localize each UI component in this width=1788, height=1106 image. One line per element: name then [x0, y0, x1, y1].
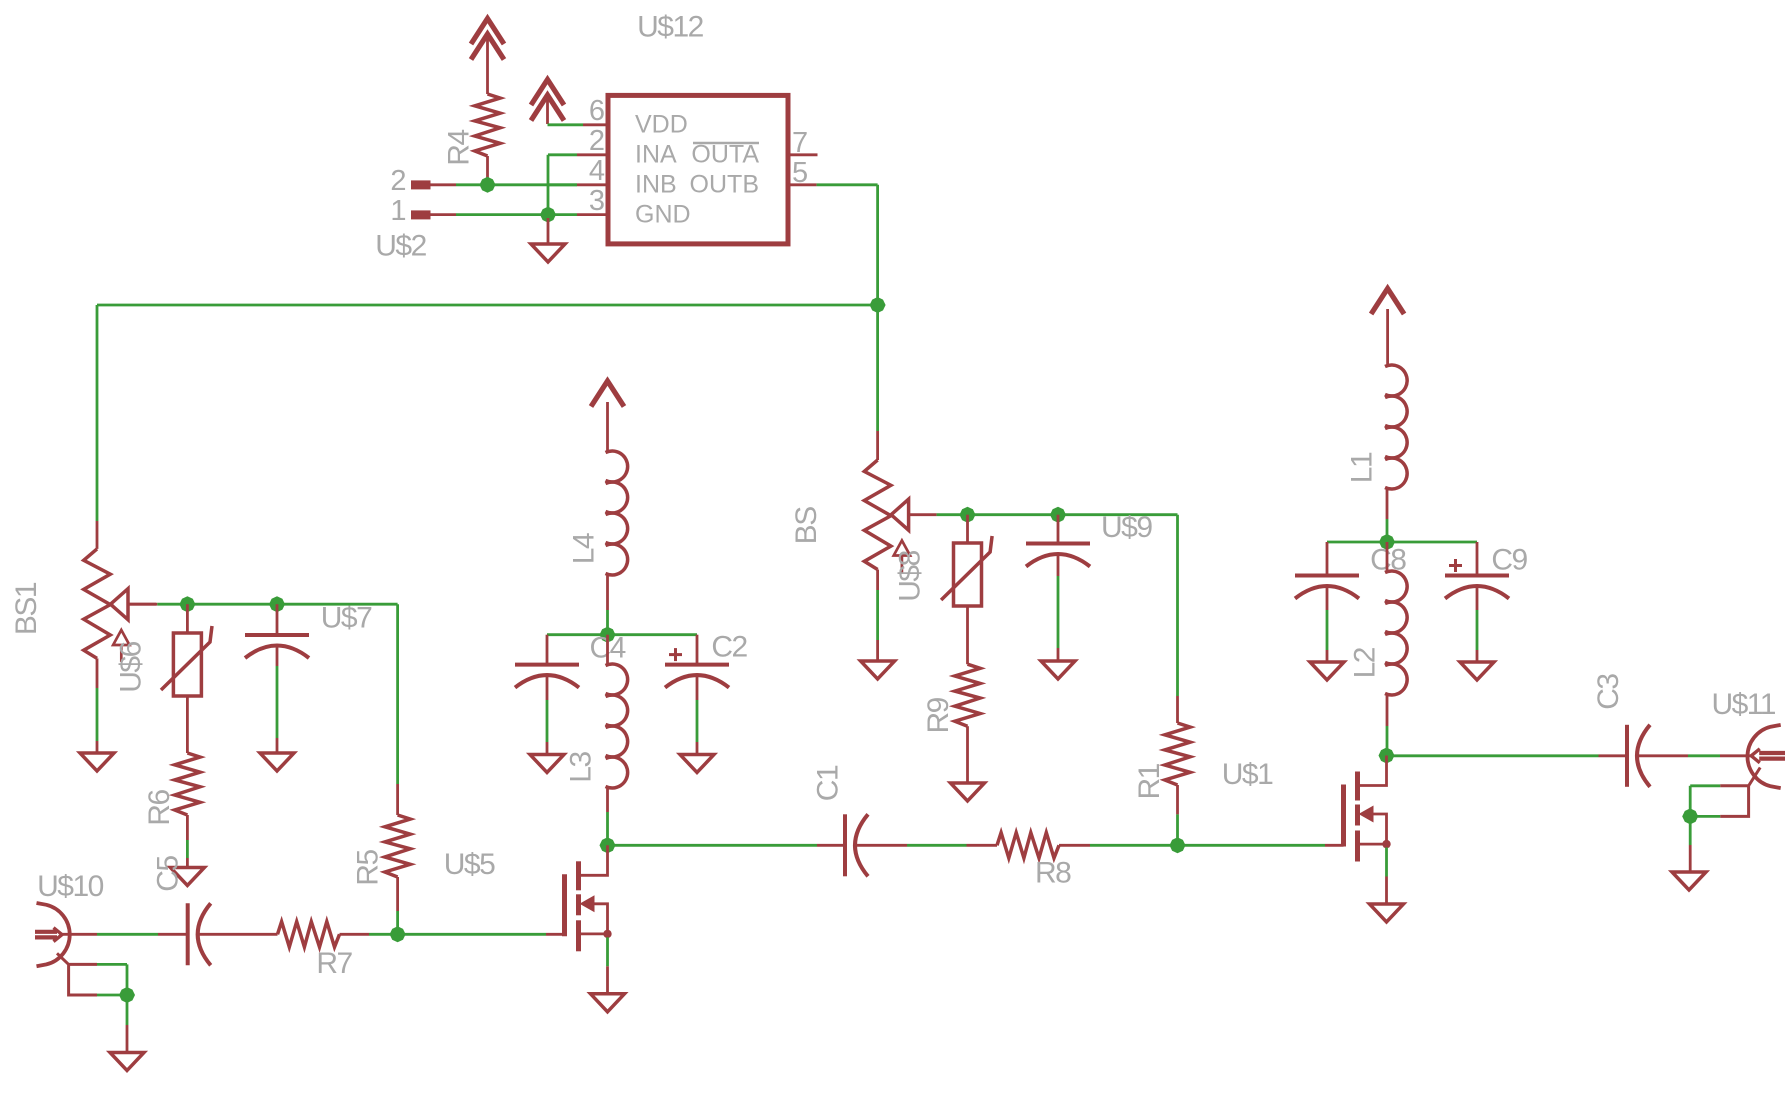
svg-text:BS: BS: [790, 507, 823, 545]
inductor L2: [1385, 571, 1407, 695]
pin 7 OUTA stub: [788, 127, 818, 159]
connector U$2 pin 2 pad: [390, 165, 456, 197]
ground (C2): [680, 755, 714, 773]
wire U$7 top stub: [276, 604, 279, 635]
wire U$7 bottom: [276, 646, 279, 753]
wire BS1 bottom: [96, 658, 99, 753]
wire rail corner down to R1: [1176, 515, 1179, 723]
ground (U$7): [260, 753, 294, 771]
ground (R9): [951, 783, 985, 801]
svg-text:C5: C5: [152, 856, 185, 892]
wire L2 top: [1386, 542, 1389, 571]
svg-text:R6: R6: [143, 790, 176, 826]
capacitor C2 polarized: [665, 648, 729, 688]
inductor L3: [606, 664, 628, 788]
svg-text:U$12: U$12: [637, 11, 704, 44]
svg-text:7: 7: [792, 127, 807, 159]
wire C8 bottom: [1326, 586, 1329, 662]
wire long horizontal rail: [97, 304, 878, 307]
label U$9: [1101, 511, 1152, 544]
ground (U$1): [1370, 904, 1404, 922]
trimmer arrow BS1: [113, 630, 129, 662]
wire C9 bottom: [1476, 586, 1479, 662]
label BS1: [10, 582, 43, 635]
wire L4 bottom: [606, 575, 609, 635]
jack connector U$11: [1747, 725, 1785, 788]
wire L2 bottom: [1386, 695, 1389, 756]
wire R8 to U$1 gate: [1178, 844, 1344, 847]
resistor R7: [278, 922, 398, 947]
svg-text:INA: INA: [635, 140, 677, 168]
junction C8/C9 rail: [1379, 534, 1395, 550]
wire rail corner down to R5: [396, 604, 399, 815]
label U$10: [37, 870, 104, 903]
svg-text:R5: R5: [352, 850, 385, 886]
wire U$11 sleeve to ground: [1689, 819, 1692, 872]
label C8: [1370, 544, 1406, 577]
svg-text:C2: C2: [711, 631, 747, 664]
wire U$6 to R6: [186, 696, 189, 753]
svg-text:R7: R7: [316, 947, 352, 980]
svg-text:R4: R4: [443, 130, 476, 166]
label R4: [443, 130, 476, 166]
svg-text:L4: L4: [568, 533, 601, 564]
wire U$9 top stub: [1057, 515, 1060, 544]
label U$2: [375, 230, 426, 263]
label U$5: [444, 848, 495, 881]
svg-text:6: 6: [589, 95, 604, 127]
trimmer arrow BS: [894, 541, 910, 573]
svg-text:BS1: BS1: [10, 582, 43, 635]
wire C8 top stub: [1326, 542, 1329, 576]
wire L3 top: [606, 635, 609, 664]
wire L1 bottom: [1386, 489, 1389, 542]
capacitor U$9: [1026, 544, 1090, 567]
wire varistor top stub: [966, 515, 969, 543]
wiper of BS1: [111, 589, 157, 620]
wire C4 top stub: [546, 635, 549, 665]
IC U$12 box: [608, 95, 788, 244]
ground (BS): [861, 661, 895, 679]
svg-text:L1: L1: [1346, 452, 1379, 483]
wire rail down to BS1: [96, 305, 99, 549]
wire C9 top stub: [1476, 542, 1479, 576]
capacitor C8: [1295, 576, 1359, 599]
wire C3 to U$11: [1638, 754, 1752, 757]
resistor R1: [1165, 723, 1190, 845]
junction R4/INB: [480, 177, 496, 193]
svg-text:U$1: U$1: [1222, 758, 1273, 791]
label U$6: [115, 641, 148, 692]
ground (R6): [170, 868, 204, 886]
supply arrow VCC (above R4): [471, 19, 504, 95]
junction U$6 tap: [179, 596, 195, 612]
svg-text:OUTA: OUTA: [691, 140, 759, 168]
svg-text:U$8: U$8: [894, 550, 927, 601]
label BS: [790, 507, 823, 545]
svg-text:GND: GND: [635, 200, 691, 228]
label U$12: [637, 11, 704, 44]
wire C2 top stub: [696, 635, 699, 665]
pin name OUTB: [690, 170, 759, 198]
capacitor C1: [845, 814, 868, 876]
svg-text:OUTB: OUTB: [690, 170, 759, 198]
svg-text:R9: R9: [922, 697, 955, 733]
wire BS bottom: [876, 570, 879, 662]
wire varistor to R9: [966, 606, 969, 665]
ground (C4): [530, 755, 564, 773]
junction R5/R7/gate: [390, 926, 406, 942]
resistor R8: [997, 833, 1178, 858]
capacitor U$7: [245, 635, 309, 658]
junction U$11 sleeve: [1682, 808, 1698, 824]
supply arrow VCC (pin 6 VDD): [531, 80, 564, 125]
label R6: [143, 790, 176, 826]
svg-text:U$5: U$5: [444, 848, 495, 881]
label L4: [568, 533, 601, 564]
svg-text:3: 3: [589, 185, 604, 217]
svg-text:C3: C3: [1592, 674, 1625, 710]
svg-text:U$2: U$2: [375, 230, 426, 263]
svg-text:U$6: U$6: [115, 641, 148, 692]
label L2: [1349, 647, 1382, 678]
inductor L4: [606, 451, 628, 575]
capacitor C5: [188, 903, 211, 965]
wire L3 bottom: [606, 788, 609, 845]
varistor U$8b: [941, 536, 992, 606]
ground (U$5): [591, 994, 625, 1012]
ground (U$9): [1041, 661, 1075, 679]
resistor R5: [385, 815, 410, 934]
junction OUTB rail: [870, 297, 886, 313]
pin name OUTA with overline: [691, 140, 759, 168]
pin name GND: [635, 200, 691, 228]
pin 4 INB stub: [548, 155, 608, 187]
wire drain to C3: [1392, 754, 1627, 757]
ground (C9): [1460, 662, 1494, 680]
label R9: [922, 697, 955, 733]
wire net INB row: [456, 183, 577, 186]
junction U$5 drain: [600, 837, 616, 853]
svg-text:VDD: VDD: [635, 110, 688, 138]
supply arrow (L4): [591, 381, 624, 451]
ground (U$10): [110, 1053, 144, 1071]
capacitor C3: [1627, 725, 1650, 787]
svg-text:4: 4: [589, 155, 605, 187]
U$11 sleeve bracket: [1690, 768, 1760, 817]
junction U$9 tap: [1050, 507, 1066, 523]
wire to ground pin3: [547, 218, 550, 244]
capacitor C9 polarized: [1445, 559, 1509, 599]
label C9: [1491, 544, 1527, 577]
label L3: [565, 752, 598, 783]
junction INA/GND: [540, 207, 556, 223]
wire C1 to R8: [856, 844, 998, 847]
wire C2 bottom: [696, 675, 699, 755]
potentiometer BS1: [84, 549, 111, 659]
wire C4 bottom: [546, 675, 549, 755]
svg-text:R8: R8: [1035, 857, 1071, 890]
supply arrow (L1): [1371, 289, 1404, 366]
pin 5 OUTB stub: [788, 157, 817, 189]
junction C4/C2 rail: [600, 627, 616, 643]
potentiometer BS: [864, 460, 891, 570]
label R8: [1035, 857, 1071, 890]
svg-text:U$11: U$11: [1711, 688, 1775, 721]
label L1: [1346, 452, 1379, 483]
junction varistor tap: [960, 507, 976, 523]
svg-text:5: 5: [792, 157, 807, 189]
junction U$10 sleeve: [119, 987, 135, 1003]
wire to U$5 gate: [398, 933, 565, 936]
inductor L1: [1385, 365, 1407, 489]
resistor R9: [955, 664, 980, 783]
label R7: [316, 947, 352, 980]
wire net GND row: [456, 213, 548, 216]
pin 6 VDD stub: [548, 95, 609, 127]
svg-text:L2: L2: [1349, 647, 1382, 678]
label C1: [812, 765, 845, 801]
label R5: [352, 850, 385, 886]
label U$7: [321, 602, 372, 635]
U$10 sleeve bracket: [57, 953, 127, 995]
label R1: [1133, 763, 1166, 799]
transistor U$1: [1344, 756, 1391, 905]
junction U$1 drain: [1379, 748, 1395, 764]
svg-text:C9: C9: [1491, 544, 1527, 577]
wire INA vertical: [547, 155, 550, 215]
pin 2 INA stub: [548, 125, 608, 157]
svg-text:C1: C1: [812, 765, 845, 801]
wire U$10 tip pin: [63, 933, 188, 936]
wire C5 to R7: [198, 933, 278, 936]
wire rail down to BS pot: [876, 305, 879, 460]
svg-text:2: 2: [390, 165, 405, 197]
wire drain to C1: [613, 844, 845, 847]
pin 3 GND stub: [548, 185, 608, 217]
wire BS wiper rail: [937, 513, 1178, 516]
varistor U$6: [161, 626, 212, 696]
svg-text:L3: L3: [565, 752, 598, 783]
svg-text:R1: R1: [1133, 763, 1166, 799]
svg-text:U$7: U$7: [321, 602, 372, 635]
wire U$9 bottom: [1057, 554, 1060, 661]
wire OUTB down: [817, 185, 878, 305]
wire U$10 sleeve to ground: [126, 998, 129, 1053]
ground (pin 3): [531, 244, 565, 262]
label C5: [152, 856, 185, 892]
wiper of BS: [891, 499, 937, 530]
label C3: [1592, 674, 1625, 710]
svg-text:1: 1: [390, 195, 405, 227]
resistor R4: [475, 94, 500, 185]
capacitor C4: [515, 665, 579, 688]
wire cap rail right: [1327, 541, 1477, 544]
label U$11: [1711, 688, 1775, 721]
svg-text:U$9: U$9: [1101, 511, 1152, 544]
ground (C8): [1310, 662, 1344, 680]
label U$8: [894, 550, 927, 601]
transistor U$5: [565, 845, 612, 994]
wire wiper rail: [128, 603, 398, 606]
ground (U$11): [1672, 872, 1706, 890]
svg-text:INB: INB: [635, 170, 677, 198]
pin name INA: [635, 140, 677, 168]
ground (BS1): [80, 753, 114, 771]
resistor R6: [175, 753, 200, 868]
svg-text:2: 2: [589, 125, 604, 157]
junction U$7 tap: [269, 596, 285, 612]
label U$1: [1222, 758, 1273, 791]
connector U$2 pin 1 pad: [390, 195, 456, 227]
svg-text:U$10: U$10: [37, 870, 104, 903]
label C4: [590, 632, 626, 665]
junction R8/R1: [1170, 837, 1186, 853]
pin name VDD: [635, 110, 688, 138]
label C2: [711, 631, 747, 664]
pin name INB: [635, 170, 677, 198]
jack connector U$10: [35, 903, 70, 966]
wire cap rail: [547, 633, 697, 636]
wire U$6 top stub: [186, 604, 189, 633]
